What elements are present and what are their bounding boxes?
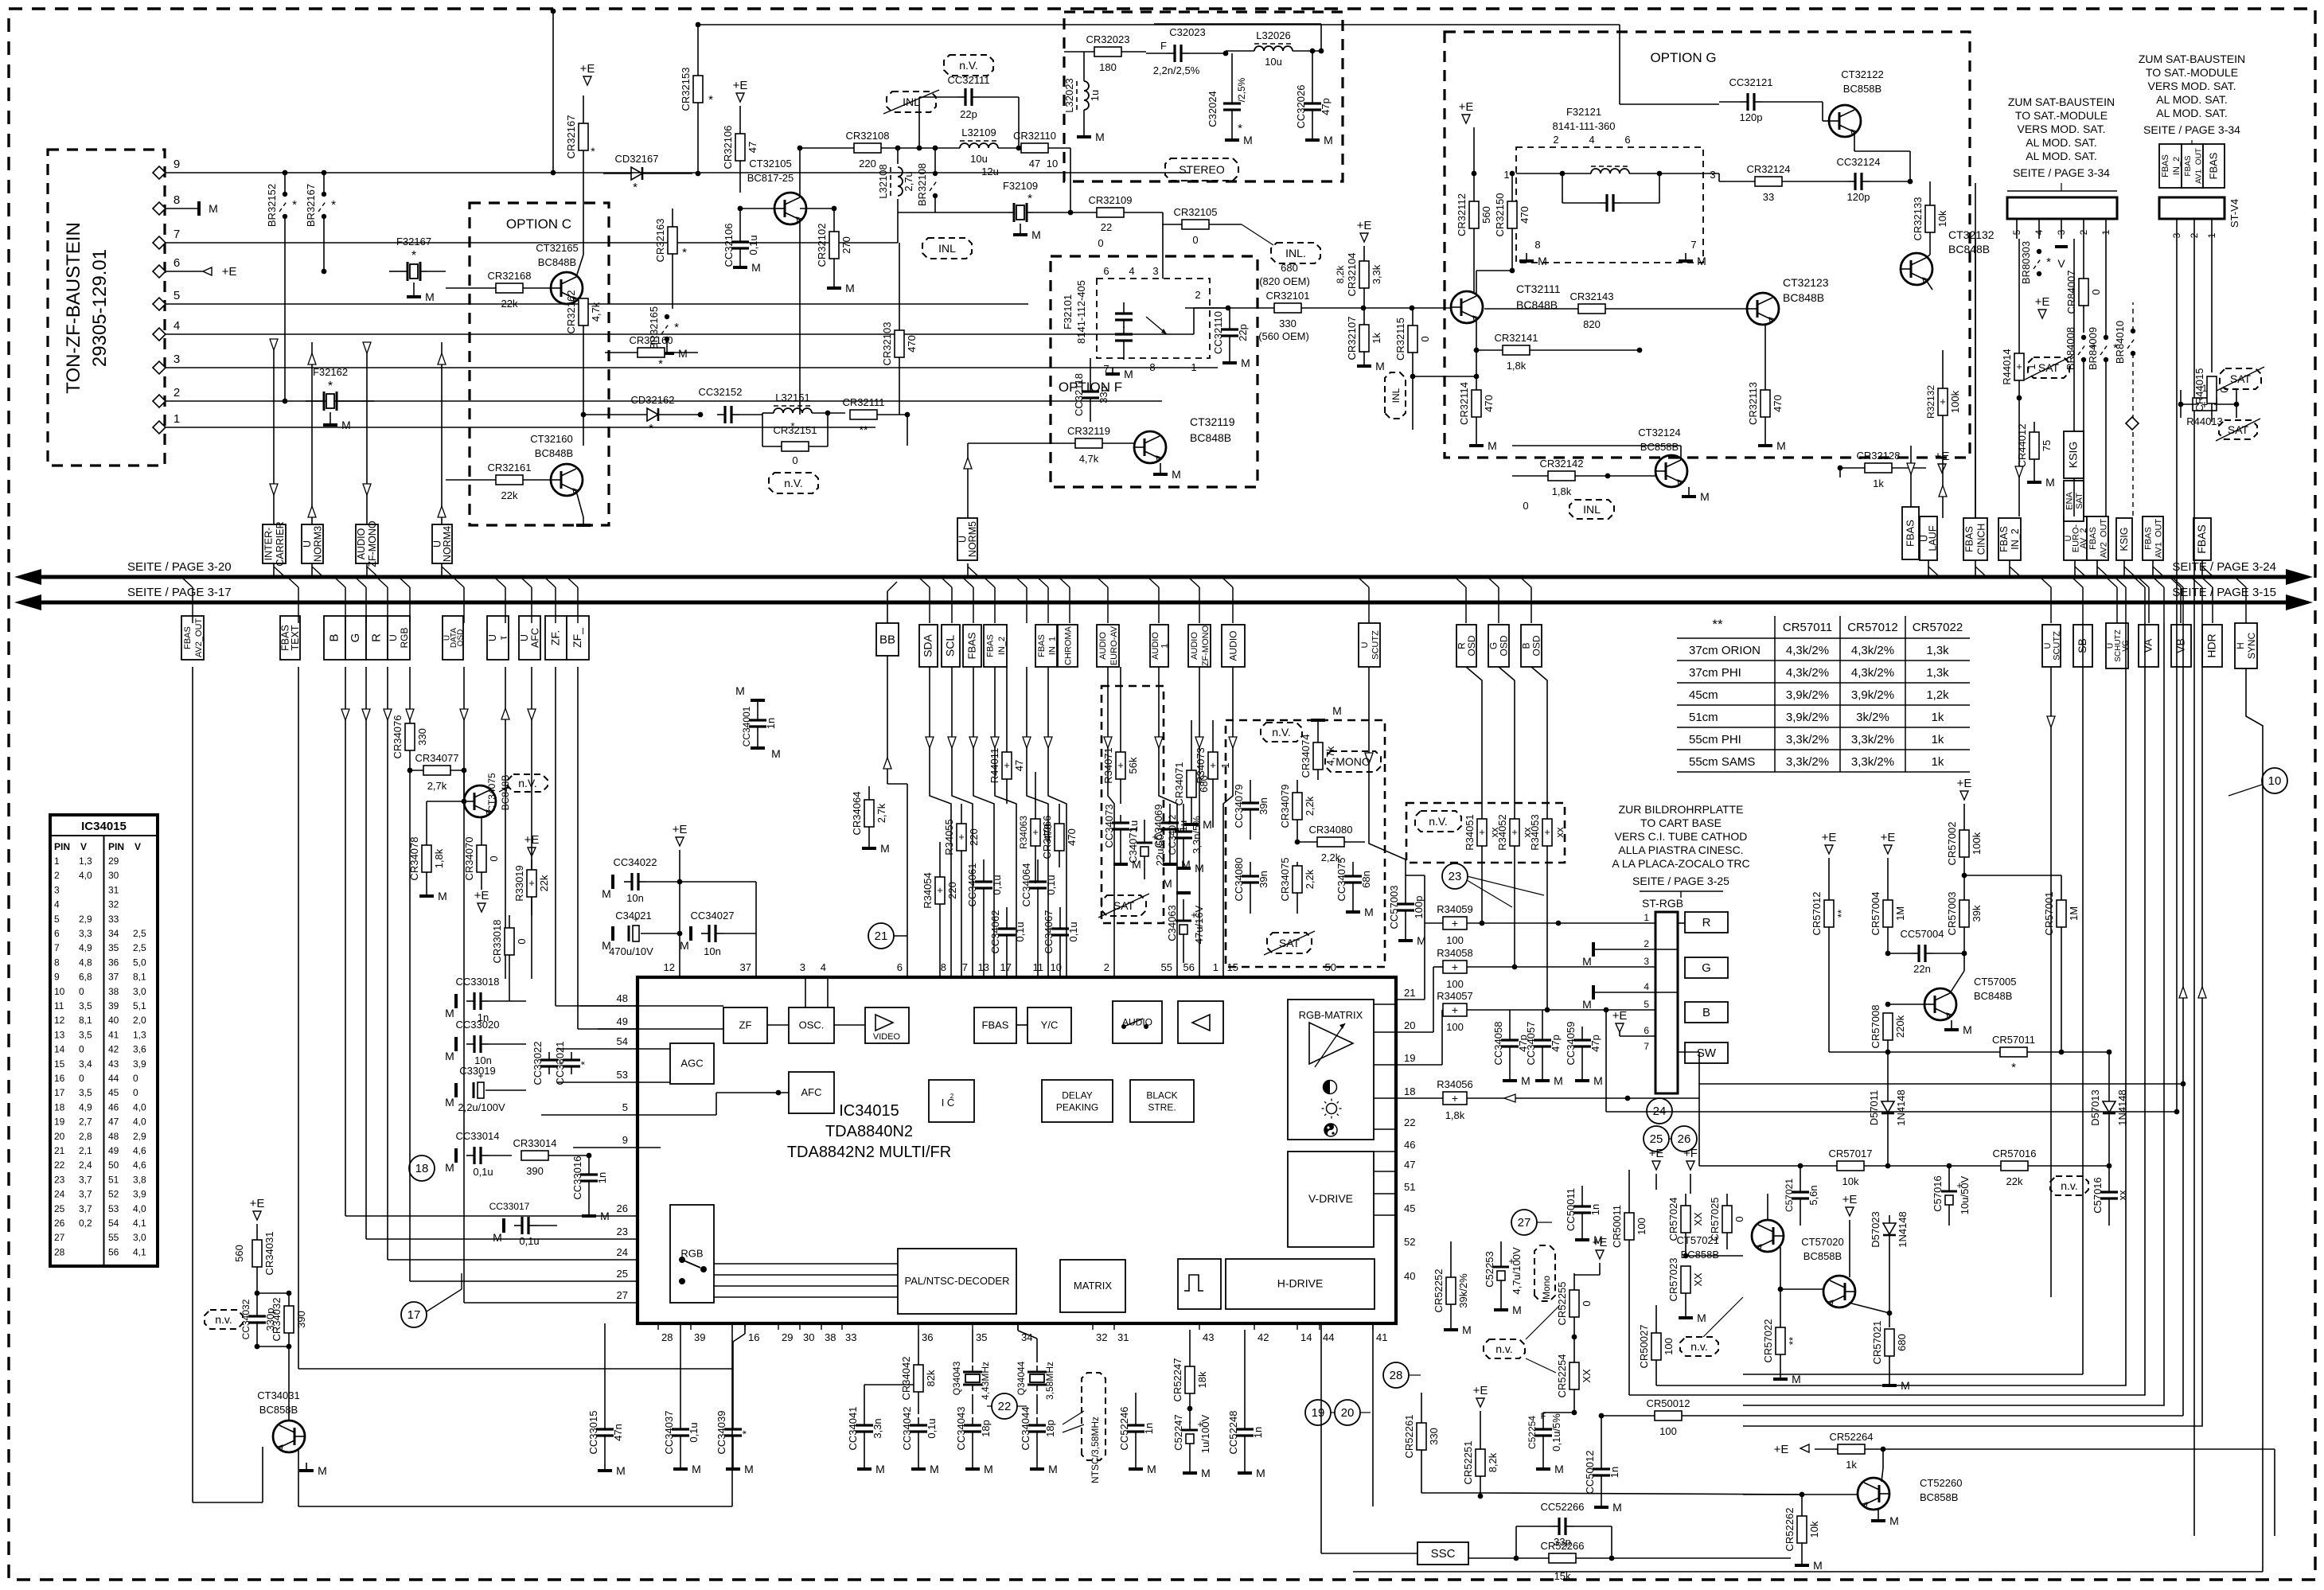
svg-text:SCUTZ: SCUTZ [2052, 631, 2061, 661]
resistor CR32168 [496, 283, 523, 293]
resistor CR32141 [1503, 345, 1530, 355]
ground C34063 M [1176, 891, 1191, 894]
svg-text:SDA: SDA [922, 633, 934, 657]
svg-text:CC33015: CC33015 [587, 1411, 599, 1455]
+E pin6 [1616, 1023, 1624, 1032]
capacitor CC34042 vert [910, 1424, 927, 1426]
resistor CR57024 vert [1681, 1206, 1690, 1233]
crystal Q34044 [1027, 1366, 1047, 1391]
capacitor CC34072 vert [1175, 830, 1192, 832]
svg-text:CR44012: CR44012 [2016, 424, 2028, 468]
svg-text:*: * [331, 198, 336, 212]
svg-text:33: 33 [845, 1331, 856, 1343]
svg-text:M: M [930, 1463, 939, 1475]
svg-text:1n: 1n [1143, 1423, 1155, 1434]
svg-text:M: M [1901, 1379, 1910, 1392]
ground CC34075 [1352, 907, 1354, 912]
svg-text:9: 9 [174, 158, 180, 171]
svg-text:C52254: C52254 [1527, 1416, 1538, 1449]
svg-text:TO SAT.-MODULE: TO SAT.-MODULE [2146, 66, 2238, 79]
svg-text:8: 8 [941, 961, 946, 973]
resistor CR52261 vert [1417, 1423, 1426, 1450]
+E CR32106 [736, 93, 744, 102]
box G [1685, 957, 1728, 978]
ground CC34059 [1581, 1076, 1583, 1081]
svg-text:17: 17 [54, 1087, 65, 1098]
svg-text:3,3: 3,3 [79, 928, 92, 939]
svg-text:100k: 100k [1949, 390, 1961, 413]
svg-text:4,9: 4,9 [79, 942, 92, 953]
svg-text:M: M [1554, 1463, 1564, 1475]
svg-text:OSD: OSD [1499, 635, 1510, 656]
tag nv CR52254 [1484, 1339, 1525, 1358]
svg-text:CR32150: CR32150 [1494, 193, 1506, 237]
svg-text:36: 36 [108, 957, 119, 968]
svg-text:SCUTZ: SCUTZ [1371, 630, 1380, 660]
svg-text:R34052: R34052 [1496, 814, 1508, 851]
svg-text:270: 270 [840, 236, 852, 254]
svg-text:560: 560 [233, 1245, 245, 1262]
jumper BR32108 [933, 171, 938, 176]
svg-text:CR32151: CR32151 [774, 424, 817, 436]
capacitor CC34044 vert [1028, 1424, 1046, 1426]
svg-text:OSD: OSD [1466, 635, 1477, 656]
resistor CR32112 vert [1469, 201, 1479, 228]
svg-text:24: 24 [617, 1246, 628, 1258]
ground CR32113 [1764, 439, 1766, 446]
capacitor CC34080 vert [1242, 875, 1259, 877]
capacitor CC32106 [731, 240, 749, 243]
svg-text:3,3k: 3,3k [1371, 264, 1382, 284]
svg-text:CR32142: CR32142 [1540, 458, 1584, 470]
svg-text:+E: +E [580, 62, 595, 76]
wire pin9 [185, 172, 1190, 173]
svg-text:M: M [2045, 476, 2055, 489]
svg-text:D57011: D57011 [1868, 1090, 1880, 1126]
svg-text:BR32152: BR32152 [266, 184, 278, 227]
TON-ZF pin 9 diamond [153, 166, 166, 179]
wire KSIG vert [2073, 239, 2075, 431]
svg-text:22: 22 [1404, 1117, 1415, 1128]
wire far bottom [1353, 1571, 2263, 1572]
svg-text:INL: INL [1583, 503, 1601, 516]
svg-text:45cm: 45cm [1689, 688, 1718, 702]
resistor CR32161 [496, 475, 523, 485]
tag SAT CR44015 [2219, 420, 2257, 439]
V symbol pin3 [2055, 245, 2068, 248]
svg-text:INL: INL [1390, 388, 1402, 403]
ST-RGB M pin2 [1593, 949, 1678, 950]
svg-text:37: 37 [740, 961, 751, 973]
svg-text:CT34031: CT34031 [257, 1389, 299, 1401]
svg-text:*: * [591, 145, 595, 158]
TON-ZF pin 4 diamond [153, 328, 166, 341]
resistor CR32119 [1075, 438, 1102, 448]
svg-text:M: M [1048, 1463, 1058, 1475]
svg-text:BC848B: BC848B [1974, 990, 2012, 1002]
ground CC34072 [1183, 863, 1184, 868]
wire pin40 right [1396, 1280, 1574, 1282]
svg-text:+: + [1452, 1092, 1458, 1105]
svg-text:4,0: 4,0 [133, 1117, 146, 1128]
svg-text:2: 2 [174, 386, 180, 399]
svg-text:23: 23 [1449, 870, 1462, 883]
svg-text:M: M [209, 202, 218, 215]
svg-text:49: 49 [617, 1015, 628, 1027]
svg-text:M: M [1697, 1311, 1706, 1324]
svg-text:F32101: F32101 [1062, 294, 1074, 329]
svg-text:(820 OEM): (820 OEM) [1259, 275, 1310, 287]
svg-text:+E: +E [1612, 1009, 1628, 1023]
svg-text:CC33022: CC33022 [532, 1042, 544, 1085]
svg-text:68n: 68n [1360, 871, 1372, 888]
svg-text:NORM4: NORM4 [442, 526, 453, 562]
resistor CR57001 vert [2057, 900, 2066, 927]
svg-text:G: G [1702, 961, 1711, 975]
svg-text:CR33018: CR33018 [491, 920, 503, 964]
svg-text:CC32124: CC32124 [1837, 156, 1881, 168]
ground L32023 [1083, 129, 1085, 137]
capacitor C57016 xx vert [2100, 1191, 2118, 1193]
svg-text:8: 8 [1149, 361, 1155, 373]
svg-text:7: 7 [174, 228, 180, 241]
svg-text:AFC: AFC [801, 1086, 822, 1098]
resistor CR52252 vert [1446, 1277, 1456, 1304]
resistor CR32150 vert [1507, 201, 1517, 228]
svg-text:25: 25 [617, 1268, 628, 1280]
svg-text:n.V.: n.V. [1429, 815, 1448, 828]
wire mid verticals [1519, 1336, 1574, 1338]
svg-text:R32132: R32132 [1925, 385, 1936, 419]
svg-text:CR32109: CR32109 [1089, 194, 1133, 206]
svg-text:CC34022: CC34022 [614, 856, 657, 868]
ic block sync pulse [1178, 1259, 1221, 1309]
label box SDA [919, 625, 938, 667]
svg-text:4,1: 4,1 [133, 1218, 146, 1229]
svg-text:1k: 1k [1846, 1459, 1857, 1471]
svg-text:M: M [845, 282, 855, 294]
svg-text:0,2: 0,2 [79, 1218, 92, 1229]
svg-text:47u/16V: 47u/16V [1193, 905, 1205, 944]
svg-text:CC34079: CC34079 [1233, 785, 1245, 828]
dashed box R3405x [1406, 803, 1565, 863]
resistor CR32124 [1755, 177, 1782, 186]
tag nv CR57023 [1680, 1337, 1718, 1356]
label box FBAS IN_2 right [1998, 518, 2021, 560]
svg-text:AGC: AGC [680, 1058, 703, 1070]
svg-text:3: 3 [54, 884, 60, 895]
resistor CR32109 [1097, 208, 1124, 217]
capacitor CC34067 [1051, 927, 1069, 929]
svg-text:40: 40 [108, 1015, 119, 1026]
svg-text:1N4148: 1N4148 [1895, 1089, 1907, 1126]
resistor CR34080 [1317, 837, 1344, 847]
svg-text:B: B [1702, 1006, 1710, 1019]
wire FBAS IN2 vert [1975, 239, 1976, 518]
diode CD32167 [631, 167, 642, 180]
resistor R34071 vert [1116, 752, 1125, 779]
ground M F32162 [329, 412, 331, 425]
svg-text:CC34039: CC34039 [716, 1411, 727, 1455]
resistor R44014 vert [2014, 353, 2024, 380]
svg-text:1k: 1k [1371, 333, 1382, 344]
wire CT32165 collector [576, 255, 583, 277]
svg-text:3,6: 3,6 [133, 1044, 146, 1055]
svg-text:0,1u: 0,1u [991, 875, 1003, 894]
capacitor CC33021 vert [563, 1058, 580, 1061]
svg-text:EURO-AV: EURO-AV [1109, 625, 1119, 665]
svg-text:OSC.: OSC. [799, 1019, 825, 1031]
svg-text:C32023: C32023 [1169, 26, 1206, 38]
bus line page 3-17 / 3-15 [32, 601, 2295, 605]
svg-text:*: * [708, 93, 713, 107]
svg-text:C57021: C57021 [1784, 1179, 1795, 1212]
svg-text:36: 36 [922, 1331, 933, 1343]
svg-text:8,2k: 8,2k [1335, 265, 1346, 284]
svg-text:21: 21 [1404, 987, 1415, 999]
svg-text:22k: 22k [501, 298, 518, 310]
svg-text:9: 9 [622, 1134, 628, 1146]
svg-text:CR34075: CR34075 [1279, 858, 1291, 902]
svg-text:10: 10 [1047, 158, 1058, 170]
svg-text:VERS MOD. SAT.: VERS MOD. SAT. [2148, 80, 2236, 92]
svg-text:SEITE / PAGE 3-25: SEITE / PAGE 3-25 [1632, 875, 1729, 887]
svg-text:6,8: 6,8 [79, 972, 92, 983]
svg-text:100k: 100k [1971, 832, 1983, 855]
svg-text:CR57022: CR57022 [1762, 1319, 1774, 1363]
resistor CR32110 [1021, 143, 1048, 153]
circled 21 [868, 923, 894, 949]
svg-text:33p: 33p [1098, 386, 1109, 403]
resistor CR52255 vert [1569, 1290, 1579, 1317]
capacitor CC50012 vert [1593, 1467, 1610, 1470]
label box FBAS TEXT [280, 616, 300, 660]
svg-text:CC34073: CC34073 [1103, 805, 1115, 848]
svg-text:4,9: 4,9 [79, 1101, 92, 1113]
svg-text:2,7: 2,7 [79, 1117, 92, 1128]
resistor CR33014 [521, 1151, 548, 1160]
resistor CR34064 vert [864, 800, 874, 827]
svg-text:INTER-: INTER- [263, 528, 274, 561]
svg-text:R34071: R34071 [1102, 747, 1114, 784]
svg-text:0: 0 [2090, 289, 2102, 294]
svg-text:2: 2 [950, 1093, 954, 1100]
IC left pin feeds [580, 1005, 638, 1007]
ground CR32114 [1476, 439, 1477, 446]
svg-text:CC34041: CC34041 [847, 1407, 859, 1451]
svg-text:H: H [2235, 642, 2246, 649]
svg-text:BC848B: BC848B [1190, 431, 1231, 444]
jumper BR84010 [2131, 329, 2135, 333]
ground CC50011 [1581, 1235, 1583, 1240]
svg-text:CR57012: CR57012 [1811, 892, 1823, 936]
svg-text:τ: τ [497, 636, 509, 640]
svg-text:CT32119: CT32119 [1190, 415, 1235, 428]
svg-text:BB: BB [879, 633, 895, 647]
wire right verticals staircase [1656, 623, 2126, 1385]
svg-text:330: 330 [416, 728, 428, 746]
resistor R44013 [2193, 398, 2217, 411]
TON-ZF pin 8 diamond [153, 202, 166, 215]
svg-text:XX: XX [1692, 1212, 1704, 1226]
label box FBAS mid [963, 625, 981, 667]
resistor CR34032 vert [284, 1306, 294, 1333]
ground CC50012 [1601, 1502, 1602, 1507]
label box G OSD [1488, 625, 1509, 667]
svg-text:FBAS: FBAS [985, 634, 995, 657]
svg-text:82k: 82k [925, 1370, 937, 1386]
tag nV CT34075 [508, 774, 548, 792]
tag INL crossed [887, 92, 936, 112]
svg-text:CR34042: CR34042 [900, 1357, 912, 1401]
svg-text:PIN: PIN [54, 841, 70, 852]
resistor CR57003 vert [1959, 900, 1969, 927]
svg-text:*: * [1027, 192, 1032, 205]
svg-text:STEREO: STEREO [1179, 163, 1225, 176]
ST-RGB wire G [1678, 966, 1685, 968]
svg-text:4,1: 4,1 [133, 1246, 146, 1257]
wire ST-RGB pin7 [1678, 1051, 1699, 1053]
svg-text:FBAS: FBAS [1905, 520, 1917, 547]
tag nv CC34032 [205, 1310, 243, 1329]
diode D57011 [1881, 1101, 1894, 1113]
svg-text:CR84007: CR84007 [2065, 271, 2077, 314]
resistor CR52264 [1838, 1444, 1865, 1454]
svg-text:1,3: 1,3 [133, 1029, 146, 1040]
svg-text:CINCH: CINCH [1976, 524, 1987, 555]
svg-text:OPTION G: OPTION G [1650, 50, 1716, 65]
svg-text:CR32112: CR32112 [1456, 193, 1468, 236]
resistor CR32153 vert [693, 76, 703, 103]
svg-text:F32121: F32121 [1566, 106, 1601, 118]
ST-V4 pin wires [2176, 219, 2178, 1112]
capacitor C52254 vert [1534, 1428, 1552, 1430]
svg-text:3,3k/2%: 3,3k/2% [1786, 755, 1829, 769]
jumper BR84008 [2081, 335, 2086, 340]
resistor CR32023 [1094, 47, 1121, 57]
resistor CR32103 vert [895, 330, 904, 357]
svg-text:FBAS: FBAS [2144, 527, 2154, 550]
svg-text:100: 100 [1446, 1021, 1464, 1033]
wire FBAS col [1910, 446, 1912, 507]
+E CR32153 top [583, 76, 591, 85]
svg-text:41: 41 [1376, 1331, 1387, 1343]
resistor CR34077 [423, 766, 450, 775]
capacitor C52247 vert [1182, 1429, 1198, 1432]
svg-text:TEXT: TEXT [290, 625, 301, 650]
left trunk verticals [192, 667, 193, 1502]
ic block FBAS [974, 1007, 1016, 1043]
svg-text:3,7: 3,7 [79, 1203, 92, 1214]
wire U NORM3 up [311, 342, 313, 524]
svg-text:n.V.: n.V. [1272, 726, 1291, 738]
svg-text:M: M [425, 290, 435, 303]
ic block MATRIX [1060, 1260, 1125, 1312]
svg-text:22: 22 [998, 1400, 1012, 1413]
svg-text:+: + [1117, 759, 1124, 771]
resistor CR34078 vert [422, 845, 431, 872]
svg-text:23: 23 [617, 1226, 628, 1237]
label box U SCUTZ right [2042, 625, 2061, 667]
label box U EURO-AV_2 [2064, 516, 2087, 560]
+E mid bottom [1596, 1250, 1604, 1259]
svg-text:M: M [1124, 368, 1133, 380]
svg-text:TO CART BASE: TO CART BASE [1640, 816, 1722, 829]
svg-text:37: 37 [108, 972, 119, 983]
svg-text:21: 21 [54, 1145, 65, 1156]
label box FBAS IN_2 mid [984, 625, 1007, 667]
svg-text:28: 28 [661, 1331, 673, 1343]
ic block H-DRIVE [1226, 1259, 1375, 1309]
svg-text:FBAS: FBAS [2208, 152, 2220, 179]
svg-text:CC50012: CC50012 [1584, 1451, 1596, 1495]
svg-text:45: 45 [1404, 1202, 1415, 1214]
resistor CR50012 [1655, 1411, 1682, 1420]
svg-text:0,1u: 0,1u [1045, 875, 1057, 894]
svg-text:29305-129.01: 29305-129.01 [89, 249, 111, 367]
wire INTER-CARRIER up [273, 350, 275, 524]
svg-text:CR32114: CR32114 [1458, 382, 1470, 425]
wire CT32132 emitter [1926, 280, 1932, 290]
svg-text:SEITE / PAGE 3-15: SEITE / PAGE 3-15 [2172, 586, 2276, 599]
+E CR52251 [1476, 1398, 1484, 1407]
svg-text:3: 3 [1152, 265, 1158, 277]
svg-text:1k: 1k [1932, 755, 1944, 769]
svg-text:390: 390 [526, 1165, 544, 1177]
svg-text:+: + [1511, 826, 1518, 838]
svg-text:+E: +E [250, 1197, 265, 1210]
svg-text:2,2k: 2,2k [1304, 869, 1316, 889]
svg-text:55: 55 [1161, 961, 1172, 973]
svg-text:ZF: ZF [739, 1019, 752, 1031]
svg-text:M: M [875, 1463, 885, 1475]
label box U NORM3 [302, 524, 323, 563]
svg-text:1: 1 [1644, 912, 1649, 923]
svg-text:470: 470 [906, 335, 918, 353]
svg-text:+E: +E [524, 833, 540, 847]
svg-text:120p: 120p [1847, 191, 1870, 203]
svg-text:4,6: 4,6 [133, 1159, 146, 1171]
svg-text:M: M [744, 1463, 754, 1475]
svg-text:680: 680 [1896, 1334, 1908, 1351]
label box HDR [2202, 625, 2222, 667]
svg-text:0,1u: 0,1u [519, 1235, 539, 1247]
label box AUDIO EURO-AV [1097, 625, 1119, 667]
svg-text:56k: 56k [1127, 757, 1139, 774]
svg-text:CR32161: CR32161 [488, 462, 532, 473]
wire pin2 [185, 400, 1162, 402]
svg-text:6: 6 [897, 961, 903, 973]
svg-text:HDR: HDR [2205, 633, 2218, 657]
+E CR57012 [1825, 845, 1833, 854]
resistor CR84007 vert [2079, 279, 2088, 306]
svg-text:0,1u: 0,1u [1067, 922, 1079, 941]
svg-text:M: M [1256, 1467, 1265, 1479]
resistor R34051 vert [1477, 819, 1487, 846]
tag SAT right [2220, 368, 2261, 389]
resistor CR32163 vert [668, 227, 677, 254]
svg-text:8,1: 8,1 [133, 972, 146, 983]
ground CR44012 [2033, 477, 2035, 482]
svg-text:M: M [1582, 955, 1592, 968]
svg-text:28: 28 [54, 1246, 65, 1257]
svg-text:3,7: 3,7 [79, 1174, 92, 1185]
svg-text:CC33020: CC33020 [456, 1019, 500, 1031]
svg-text:CR34070: CR34070 [463, 837, 475, 881]
svg-text:CR32160: CR32160 [630, 334, 673, 346]
svg-text:22p: 22p [1237, 324, 1249, 341]
svg-text:M: M [1612, 1501, 1622, 1514]
